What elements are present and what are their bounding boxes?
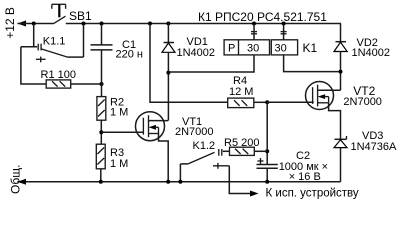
contact K1.1 xyxy=(21,44,84,63)
svg-text:Общ.: Общ. xyxy=(9,165,23,194)
wire bus down to C1 xyxy=(101,24,103,45)
wire top bus left arrow xyxy=(17,21,26,27)
resistor R2 xyxy=(97,97,106,121)
wire bus corner down to VD2 xyxy=(340,24,342,42)
svg-text:30: 30 xyxy=(247,43,259,55)
wire K1.1 common up to bus xyxy=(83,24,85,58)
wire K1.2 common to ground xyxy=(179,164,181,182)
wire R2 bottom to R3 xyxy=(100,120,102,144)
svg-text:Р: Р xyxy=(228,43,235,55)
svg-text:1 М: 1 М xyxy=(110,107,128,119)
resistor R3 xyxy=(96,144,105,169)
wire R5 right to C2 node xyxy=(254,150,267,152)
wire R3 bottom to ground bus xyxy=(100,169,102,182)
winding2 latch ticks xyxy=(281,32,287,34)
node junction dot (R4 branch) xyxy=(148,22,152,26)
svg-text:+12 В: +12 В xyxy=(3,7,17,39)
ground bus xyxy=(17,181,340,183)
wire top bus right of SB1 xyxy=(66,23,341,25)
node junction dot (R1/C1/R2) xyxy=(100,82,104,86)
wire R4 right to gate node xyxy=(254,101,267,103)
wire gate VT1 xyxy=(101,131,143,133)
capacitor C2 xyxy=(257,165,278,169)
node junction dot (R5/C2) xyxy=(265,149,269,153)
node junction dot (R4/VT2 gate) xyxy=(265,100,269,104)
svg-text:K1.1: K1.1 xyxy=(43,35,66,47)
svg-text:SB1: SB1 xyxy=(69,9,92,23)
resistor R5 xyxy=(230,147,255,155)
svg-text:1N4736A: 1N4736A xyxy=(351,141,398,153)
wire VD1 anode down to VT1 drain xyxy=(167,52,169,120)
transistor VT2 2N7000 xyxy=(306,82,341,140)
svg-text:K1: K1 xyxy=(303,41,318,55)
resistor R1 xyxy=(46,80,70,88)
svg-text:R1 100: R1 100 xyxy=(41,69,76,81)
wire K1 winding2 top xyxy=(283,24,285,40)
node junction dot (R2/R3/gate VT1) xyxy=(99,130,103,134)
wire VD2 anode down xyxy=(340,52,342,91)
wire C2 bottom to ground xyxy=(266,168,268,182)
wire VD1 from bus down xyxy=(167,24,169,43)
diode VD2 xyxy=(334,42,347,52)
svg-text:K1.2: K1.2 xyxy=(193,140,216,152)
node ground dot VT1 source xyxy=(166,180,170,184)
node junction dot (K1.1 branch) xyxy=(82,22,86,26)
wire VD3 anode to ground bus xyxy=(340,148,342,182)
svg-text:2N7000: 2N7000 xyxy=(175,126,214,138)
wire K1 winding1 top xyxy=(253,24,255,40)
node junction dot A (+12V entry) xyxy=(32,22,36,26)
ground bus arrow xyxy=(17,179,26,185)
svg-text:2N7000: 2N7000 xyxy=(343,96,382,108)
svg-text:220 н: 220 н xyxy=(116,49,143,61)
capacitor C1 xyxy=(91,45,113,50)
wire winding2 bottom to VD2 node xyxy=(284,55,341,72)
wire K1.2 throw to output xyxy=(229,166,252,194)
svg-text:К исп. устройству: К исп. устройству xyxy=(266,188,359,200)
transistor VT1 2N7000 xyxy=(136,112,169,182)
node ground dot R3 xyxy=(99,180,103,184)
capacitor C2 plus sign xyxy=(258,158,264,164)
switch SB1 xyxy=(52,4,66,24)
node ground dot C2 xyxy=(265,180,269,184)
relay K1 box xyxy=(224,40,297,55)
wire C1 bottom to R2 xyxy=(101,50,103,97)
wire left bracket from K1.1 to R1 xyxy=(21,47,46,84)
node junction dot (K1 winding 1) xyxy=(252,22,256,26)
svg-text:1N4002: 1N4002 xyxy=(177,47,216,59)
svg-text:30: 30 xyxy=(275,43,287,55)
resistor R4 xyxy=(228,98,254,108)
node junction dot (C1 branch) xyxy=(100,22,104,26)
wire from R4 corner xyxy=(150,24,228,103)
node ground dot K1.2 xyxy=(178,180,182,184)
diode VD1 xyxy=(162,43,175,53)
output arrow xyxy=(250,191,259,197)
wire top bus left segment xyxy=(17,23,53,25)
node junction dot (VD1 branch) xyxy=(166,22,170,26)
svg-text:1N4002: 1N4002 xyxy=(352,47,391,59)
svg-text:К1 РПС20 РС4.521.751: К1 РПС20 РС4.521.751 xyxy=(198,10,327,24)
wire R1 right to C1 node xyxy=(71,83,102,85)
svg-text:1 М: 1 М xyxy=(110,158,128,170)
diode VD3 zener xyxy=(334,136,347,148)
wire gate VT2 xyxy=(267,101,314,103)
wire from +12V dot down to K1.1 xyxy=(33,24,35,47)
svg-text:12 М: 12 М xyxy=(229,86,253,98)
node junction dot (VD2/winding2/VT2 drain) xyxy=(339,70,343,74)
winding1 latch ticks xyxy=(251,32,257,34)
contact K1.2 xyxy=(180,149,229,169)
wire winding1 bottom to VD1 node xyxy=(168,55,254,72)
node junction dot (K1 winding 2) xyxy=(282,22,286,26)
node junction dot (VD1/winding1/drain) xyxy=(166,71,170,75)
wire gate node down to R5 node xyxy=(266,102,268,164)
